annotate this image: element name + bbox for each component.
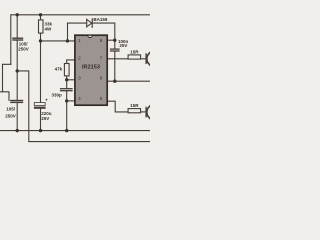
resistor R4 15R (lower) (128, 109, 141, 113)
pin numbers U1 (78, 38, 103, 101)
node pin3 / R2 / C4 (65, 78, 68, 81)
wire: pin7 to R3 (107, 58, 128, 60)
node rail / C3 (39, 129, 42, 132)
svg-text:15R: 15R (130, 49, 139, 54)
op-amp U1 IR2153 body (75, 35, 107, 105)
svg-text:15R: 15R (130, 103, 139, 108)
resistor R3 15R (upper) (128, 55, 141, 59)
labels (5, 17, 139, 121)
node VCC / R1 / C3 (39, 39, 42, 42)
node rail / C2 (16, 129, 19, 132)
junction dots (16, 13, 117, 132)
node top rail / R1 (39, 13, 42, 16)
wire: pin4 ground (67, 100, 75, 102)
svg-text:250V: 250V (5, 114, 16, 119)
resistor R1 33k 4W (40, 15, 42, 20)
wire: midpoint rail to load (17, 71, 150, 142)
svg-text:105/: 105/ (6, 106, 16, 111)
wire: pin2 to 47k (67, 60, 75, 64)
svg-text:IR2153: IR2153 (82, 65, 100, 71)
pin1 notch on U1 (88, 35, 93, 37)
resistor R2 47k (64, 64, 69, 76)
node cap midpoint (16, 69, 19, 72)
capacitor C2 105/250V (lower) (16, 71, 18, 101)
transistor Q1 (cut at edge) (147, 52, 162, 67)
wire: pin8 (107, 39, 115, 41)
wire: pin6 VS out (107, 80, 150, 82)
capacitor C4 330p (66, 80, 68, 89)
capacitor C5 100n 25V (114, 40, 116, 49)
wire: VCC node to IC pin1 (41, 40, 75, 42)
wire: bottom ground rail (0, 130, 150, 132)
svg-text:25V: 25V (119, 43, 127, 48)
wire: pin3 (67, 79, 75, 81)
node top rail / C1 (16, 13, 19, 16)
wire: left AC input jog (3, 64, 11, 100)
svg-text:330p: 330p (52, 93, 63, 98)
transistor Q2 (cut at edge) (147, 105, 162, 120)
svg-text:250V: 250V (18, 46, 29, 51)
node rail / pin4 (65, 129, 68, 132)
node pin6 / C5 (113, 80, 116, 83)
wire: top +310V rail (11, 15, 150, 65)
svg-text:25V: 25V (41, 116, 49, 121)
wire: AC input stub to left edge (0, 91, 3, 93)
svg-text:4W: 4W (45, 26, 53, 31)
node VB pin8 / C5 (113, 39, 116, 42)
svg-text:47k: 47k (55, 66, 63, 71)
node pin4 / C4 (65, 99, 68, 102)
diode D1 BA159 (87, 19, 92, 27)
wire: diode branch up (68, 23, 87, 41)
svg-text:BA159: BA159 (93, 17, 108, 22)
svg-text:+: + (45, 98, 48, 103)
capacitor C1 105/250V (upper) (16, 15, 18, 38)
capacitor C3 220u 25V electrolytic (40, 41, 42, 103)
wire: pin5 to R4 (107, 101, 128, 112)
node VCC / D1 (66, 39, 69, 42)
wire: diode cathode to pin8 node (92, 23, 115, 40)
